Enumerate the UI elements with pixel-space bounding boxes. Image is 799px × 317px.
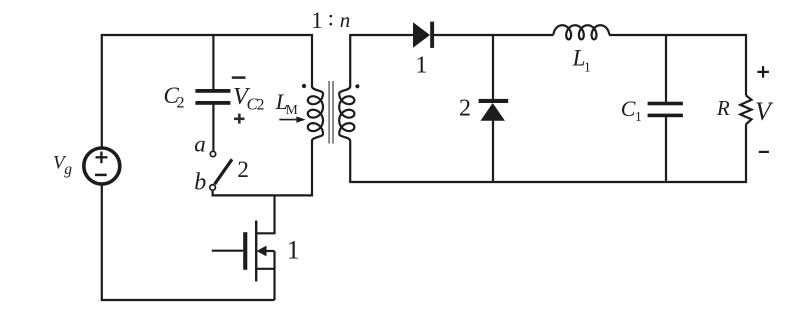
- svg-text:2: 2: [257, 97, 265, 114]
- svg-text:1: 1: [584, 59, 591, 74]
- svg-text:2: 2: [237, 157, 249, 182]
- svg-text:C: C: [621, 96, 636, 121]
- svg-text::: :: [328, 6, 334, 31]
- svg-text:2: 2: [177, 94, 185, 111]
- svg-text:M: M: [286, 102, 298, 117]
- svg-text:2: 2: [459, 95, 471, 121]
- svg-text:g: g: [64, 161, 72, 178]
- svg-text:1: 1: [415, 51, 427, 78]
- svg-text:R: R: [716, 96, 730, 120]
- svg-text:a: a: [194, 132, 206, 157]
- svg-text:n: n: [340, 8, 351, 32]
- svg-text:b: b: [194, 169, 206, 195]
- svg-text:1: 1: [635, 109, 642, 124]
- svg-text:1: 1: [287, 236, 300, 265]
- svg-text:1: 1: [311, 8, 323, 33]
